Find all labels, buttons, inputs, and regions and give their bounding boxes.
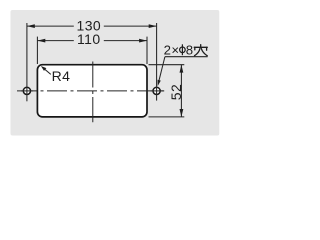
svg-text:8: 8 (186, 43, 194, 58)
svg-text:52: 52 (168, 84, 184, 100)
svg-text:2×: 2× (164, 43, 180, 58)
svg-text:110: 110 (77, 31, 101, 47)
svg-text:R4: R4 (52, 68, 71, 84)
